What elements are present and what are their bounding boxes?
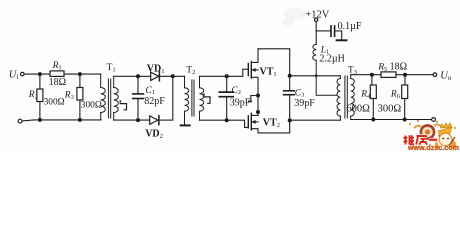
- capacitor C2 39pF: [219, 76, 233, 120]
- node junction dot (R6 top): [403, 73, 407, 77]
- node stub (source-drain midpoint tap): [249, 96, 258, 102]
- svg-text:18Ω: 18Ω: [49, 77, 66, 88]
- wire bottom-left rail: [22, 120, 101, 121]
- svg-text:39pF: 39pF: [294, 98, 315, 109]
- ground (T2 primary bottom): [181, 124, 190, 126]
- capacitor C1 82pF: [133, 76, 144, 120]
- svg-text:2.2µH: 2.2µH: [319, 54, 344, 65]
- node T junction dot (tank top): [288, 74, 292, 78]
- node junction dot (R2 bottom): [38, 118, 42, 122]
- capacitor C3 39pF: [284, 76, 295, 121]
- resistor R2 300ohm (shunt, vertical box): [37, 74, 43, 120]
- node A junction dot (R2 top): [38, 72, 42, 76]
- wire middle top rail (T1 sec to T2 pri): [114, 75, 185, 77]
- resistor R1 18ohm (series, horizontal box): [50, 71, 64, 77]
- wire VD2 to link node: [160, 119, 173, 121]
- wire tank top rail to T3: [290, 75, 341, 77]
- watermark text www.dzsc.com: [407, 145, 459, 152]
- node junction dot (R3 bottom): [78, 118, 82, 122]
- transformer T3: [337, 75, 354, 120]
- +12V supply terminal: [315, 18, 318, 44]
- node junction dot (R4 bottom): [371, 118, 375, 122]
- transistor VT2 (MOSFET): [248, 113, 258, 133]
- resistor R5 18ohm (series, horizontal box): [381, 72, 396, 78]
- wire T2 secondary bottom rail to VT2 gate: [200, 120, 248, 127]
- input terminal top: [21, 72, 25, 76]
- node junction dot (R6 bottom): [403, 118, 407, 122]
- node junction dot (R4 top): [370, 73, 374, 77]
- output terminal bottom: [432, 118, 436, 122]
- wire output bottom rail: [351, 119, 432, 121]
- output terminal top: [433, 73, 437, 77]
- wire T2 secondary top rail to VT1 gate: [200, 69, 248, 76]
- svg-text:www.dzsc.com: www.dzsc.com: [407, 145, 459, 151]
- inductor L1 2.2uH: [313, 44, 337, 95]
- svg-text:300Ω: 300Ω: [81, 100, 102, 110]
- wire VT1 source to VT2 drain: [257, 96, 259, 116]
- node Ui input label: [9, 70, 19, 82]
- wire VT1 drain top rail: [258, 49, 290, 76]
- svg-text:300Ω: 300Ω: [44, 97, 65, 107]
- transistor VT1 (MOSFET): [248, 49, 258, 96]
- input terminal bottom: [18, 119, 22, 123]
- resistor R3 300ohm (shunt, vertical box): [77, 74, 83, 120]
- transformer T2: [185, 76, 211, 125]
- node B junction dot (tank bottom): [288, 118, 292, 122]
- ground (0.1uF): [337, 39, 347, 41]
- wire top-left rail: [24, 73, 101, 75]
- svg-text:300Ω: 300Ω: [378, 103, 402, 114]
- svg-text:600Ω: 600Ω: [346, 103, 370, 114]
- wire VT2 source return: [258, 121, 290, 133]
- resistor R4 600ohm (shunt, vertical box): [370, 75, 376, 120]
- node Uo output label: [440, 70, 452, 82]
- capacitor 0.1uF (decoupling): [316, 26, 342, 40]
- wire R5 to output terminal: [396, 74, 433, 76]
- svg-text:0.1µF: 0.1µF: [338, 21, 362, 32]
- svg-text:39pF: 39pF: [230, 97, 251, 108]
- watermark text 维库一下 (simulated strokes): [404, 135, 448, 145]
- wire output top rail: [351, 74, 381, 76]
- transformer T1: [101, 74, 127, 120]
- wire link VD1/VD2 node vertical: [172, 76, 174, 120]
- node B junction dot (R3 top): [78, 72, 82, 76]
- watermark dzsc logo: [282, 8, 456, 139]
- svg-text:82pF: 82pF: [144, 96, 165, 107]
- svg-text:18Ω: 18Ω: [390, 61, 407, 72]
- diode VD1: [151, 72, 160, 81]
- diode VD2: [150, 116, 159, 125]
- wire middle bottom rail (T1 sec bottom to VD2): [114, 119, 150, 121]
- resistor R6 300ohm (shunt, vertical box): [402, 75, 408, 120]
- node junction dot (VD1 cathode node): [171, 74, 175, 78]
- wire tank bottom rail to T3: [290, 116, 341, 120]
- watermark mascot: [435, 123, 456, 149]
- svg-text:+12V: +12V: [305, 9, 329, 20]
